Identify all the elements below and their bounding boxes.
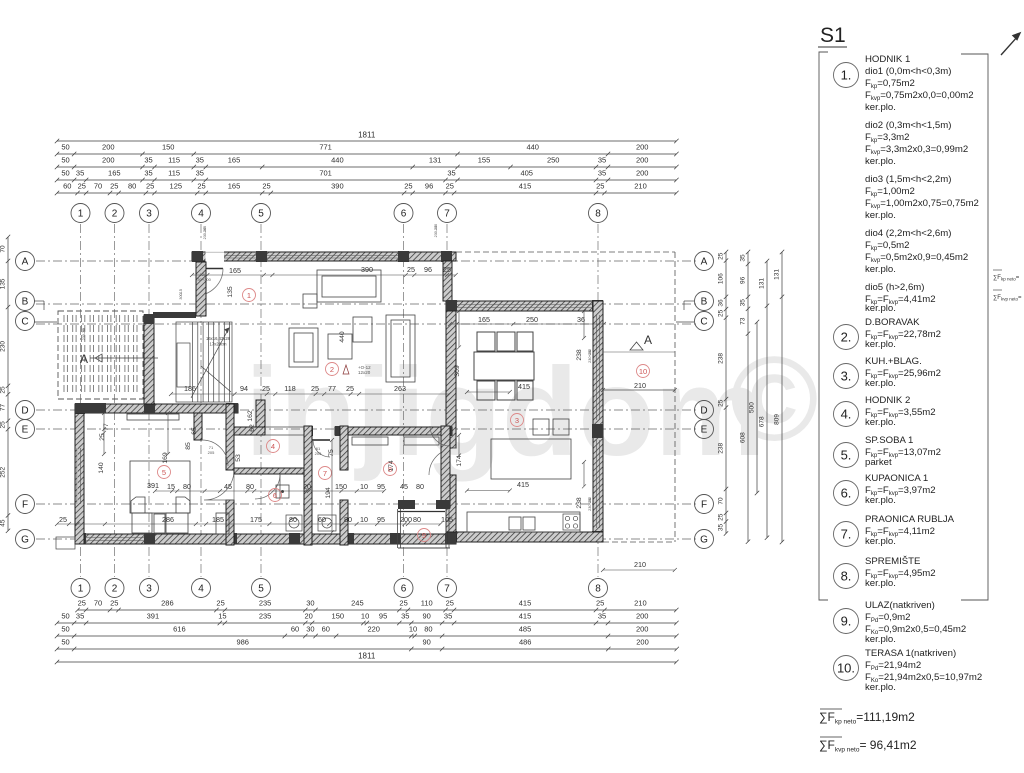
svg-text:80: 80 [416,482,424,491]
svg-text:200: 200 [102,143,115,152]
svg-text:80: 80 [344,515,352,524]
dimension column right 2 [746,250,750,544]
grid circle 8 bottom [589,579,608,598]
svg-text:25: 25 [718,252,725,260]
terrace 10 dim lines [603,352,675,390]
svg-text:80: 80 [424,625,432,634]
svg-text:238: 238 [576,497,583,509]
grid line 7 [446,224,448,577]
pillar bottom G7 [445,533,456,544]
svg-text:250: 250 [547,156,560,165]
window top wall line 1 [207,255,398,257]
svg-text:2: 2 [330,365,334,374]
svg-text:SP.SOBA 1: SP.SOBA 1 [865,435,913,446]
interior dim 238 upper [582,309,586,340]
svg-text:230-20: 230-20 [203,228,207,240]
interior dim kitchen top [448,322,606,326]
svg-text:25: 25 [78,599,86,608]
svg-text:809: 809 [774,414,781,425]
svg-text:35: 35 [447,169,455,178]
svg-text:200: 200 [636,143,649,152]
svg-text:KUH.+BLAG.: KUH.+BLAG. [865,356,922,367]
in-plan rotated dimension numbers [98,286,583,509]
dresser [216,513,229,534]
svg-text:1: 1 [78,584,84,595]
svg-text:210: 210 [634,560,646,569]
svg-text:210: 210 [634,182,647,191]
legend entry 6. text [865,473,936,506]
grid circle G right [695,530,714,549]
svg-text:36: 36 [718,299,725,307]
tv cabinet [386,315,415,382]
wall bedroom east upper [226,404,234,470]
wall top exterior [192,252,456,261]
legend title S1 [818,24,847,47]
grid line 2 [114,224,116,577]
svg-text:35: 35 [144,156,152,165]
svg-text:165: 165 [229,266,241,275]
svg-text:Fkvp=0,75m2x0,0=0,00m2: Fkvp=0,75m2x0,0=0,00m2 [865,90,974,102]
washing machine [318,515,336,531]
svg-text:7: 7 [444,584,450,595]
bed pillow 2 [176,497,190,513]
window bottom 1 [86,537,144,539]
svg-text:35: 35 [598,612,606,621]
grid circle E left [16,420,35,439]
bath sink [276,485,289,498]
svg-text:6: 6 [401,209,407,220]
svg-text:35: 35 [740,299,747,307]
window west sill [77,448,81,504]
grid circle B left [16,292,35,311]
svg-text:10: 10 [361,612,369,621]
svg-text:D.BORAVAK: D.BORAVAK [865,317,920,328]
svg-text:210: 210 [634,599,647,608]
legend entry 6. circle [834,481,859,506]
svg-text:131: 131 [774,269,781,280]
wall room4 north stub [256,400,265,435]
svg-text:25: 25 [262,384,270,393]
dimension row top 4 [55,178,679,182]
svg-text:235: 235 [259,612,272,621]
room number 4 [267,440,280,453]
window west 1 [77,448,79,504]
svg-text:C: C [21,317,28,328]
legend entry 2. circle [834,325,859,350]
svg-text:80: 80 [128,182,136,191]
dimension row bottom 2 [55,621,679,625]
room number 6 [269,489,282,502]
dining table [474,352,534,380]
svg-text:4: 4 [198,584,204,595]
wall bedroom closet [194,413,202,440]
dining chair 1 [477,332,495,351]
svg-text:185: 185 [212,515,224,524]
svg-text:162: 162 [247,410,254,422]
svg-text:Fkvp=0,5m2x0,9=0,45m2: Fkvp=0,5m2x0,9=0,45m2 [865,252,968,264]
grid circle 7 bottom [438,579,457,598]
north arrow [1001,33,1020,55]
porch wall west 2 [400,509,402,548]
dimension column right 4 [780,250,784,544]
door swing bathroom [255,474,280,499]
svg-text:80: 80 [289,515,297,524]
svg-text:165: 165 [228,156,241,165]
svg-text:174: 174 [388,460,395,472]
wall room7 east lower [340,500,348,545]
svg-text:25: 25 [59,515,67,524]
pillar top A5 [256,251,267,262]
interior dim dining 415 [465,390,512,394]
wall kitchen west upper [446,311,456,448]
pillar kitchen NW [446,300,457,311]
svg-text:125: 125 [170,182,183,191]
svg-text:500: 500 [749,402,756,413]
grid circle 6 top [394,204,413,223]
svg-text:Fkvp=3,3m2x0,3=0,99m2: Fkvp=3,3m2x0,3=0,99m2 [865,144,968,156]
svg-text:dio1 (0,0m<h<0,3m): dio1 (0,0m<h<0,3m) [865,66,951,77]
svg-text:ker.plo.: ker.plo. [865,339,896,350]
svg-text:F: F [701,500,707,511]
grid circle C left [16,312,35,331]
dimension column right 3 [765,259,769,540]
bed pillow 1 [131,497,145,513]
svg-text:HODNIK 2: HODNIK 2 [865,395,910,406]
grid line 1 [80,224,82,577]
svg-text:415: 415 [517,480,529,489]
svg-text:286: 286 [161,599,174,608]
svg-text:115: 115 [168,169,180,178]
corridor opening bottom [265,434,304,436]
svg-text:dio3 (1,5m<h<2,2m): dio3 (1,5m<h<2,2m) [865,174,951,185]
room number 5 [158,466,171,479]
wall living east [443,261,452,301]
svg-text:608: 608 [740,432,747,443]
svg-text:73: 73 [740,317,747,325]
svg-text:5: 5 [162,468,166,477]
svg-text:165: 165 [228,182,241,191]
svg-text:391: 391 [147,481,159,490]
cooktop [563,514,580,530]
interior dim corridor [153,489,386,493]
svg-text:10: 10 [639,367,647,376]
svg-text:118: 118 [284,384,295,393]
svg-text:678: 678 [759,416,766,427]
svg-text:50: 50 [61,143,69,152]
svg-text:200: 200 [636,612,649,621]
svg-text:30: 30 [306,599,314,608]
svg-text:95: 95 [379,612,387,621]
svg-text:174: 174 [456,455,463,467]
in-plan dimension numbers [59,265,646,569]
svg-text:25: 25 [407,265,415,274]
svg-text:B: B [22,297,29,308]
interior dim terrace 210b [601,568,677,572]
svg-text:1.: 1. [841,68,852,83]
grid circle F right [695,495,714,514]
porch door lintel [398,511,445,513]
svg-text:50: 50 [61,638,69,647]
svg-text:5: 5 [258,209,264,220]
svg-text:10: 10 [360,482,368,491]
svg-text:25: 25 [262,182,270,191]
label 128 230+300 [195,272,211,282]
svg-text:2.: 2. [841,330,852,345]
section marker A kitchen [630,333,652,350]
svg-text:G: G [21,535,29,546]
door leaf entrance [196,268,223,270]
svg-text:53: 53 [235,454,242,462]
closet room 8 [404,437,439,445]
svg-text:8: 8 [595,209,601,220]
svg-text:440: 440 [339,331,346,343]
svg-text:ker.plo.: ker.plo. [865,495,896,506]
svg-text:85: 85 [185,442,192,450]
svg-text:616: 616 [173,625,186,634]
window kitchen east 1 [596,315,598,420]
legend entry 8. text [865,556,936,589]
svg-text:25: 25 [110,182,118,191]
legend entry 10. circle [834,656,859,681]
svg-text:1: 1 [78,209,84,220]
door opening jamb lines [206,251,225,253]
svg-text:25: 25 [399,599,407,608]
svg-text:25: 25 [110,599,118,608]
svg-text:8: 8 [595,584,601,595]
svg-text:5.: 5. [841,448,852,463]
svg-text:415: 415 [519,612,532,621]
window kitchen east 3 [596,440,598,528]
svg-text:77: 77 [103,423,110,431]
svg-text:25: 25 [718,399,725,407]
grid circle 5 bottom [252,579,271,598]
grid line C [36,323,696,325]
svg-text:115: 115 [168,156,180,165]
svg-text:36: 36 [577,315,585,324]
grid circle E right [695,420,714,439]
pillar bottom G5 [343,533,354,544]
svg-text:230: 230 [0,341,7,352]
dashed canopy right [674,252,676,542]
nightstand 1 [132,513,152,533]
svg-text:150: 150 [162,143,175,152]
svg-text:25: 25 [197,182,205,191]
grid line F [36,503,696,505]
dining chair 6 [517,381,533,400]
pillar bottom G1 [75,533,86,544]
kitchen counter [467,512,580,532]
svg-text:4: 4 [271,442,275,451]
wall kitchen west lower [446,475,456,532]
svg-text:210: 210 [634,381,646,390]
svg-text:D: D [21,406,28,417]
pillar corridor 3 [441,426,452,436]
svg-text:390: 390 [361,265,373,274]
svg-text:25: 25 [311,384,319,393]
dining chair 4 [477,381,495,400]
wall hall north [153,312,196,318]
wall west exterior [75,404,84,544]
svg-text:50: 50 [61,625,69,634]
svg-text:ker.plo.: ker.plo. [865,303,896,314]
dimension row top 2 [55,152,679,156]
legend entry 3. text [865,356,941,389]
dashed canopy bottom [603,541,675,543]
room number 3 [511,414,524,427]
svg-text:96: 96 [740,276,747,284]
wall hall west [144,315,154,404]
svg-text:35: 35 [144,169,152,178]
grid circle 2 top [105,204,124,223]
svg-text:ker.plo.: ker.plo. [865,682,896,693]
svg-text:20: 20 [305,612,313,621]
svg-text:E: E [701,425,708,436]
porch wall east 2 [448,509,450,548]
wall bottom exterior [75,534,456,544]
svg-text:200: 200 [400,515,412,524]
grid circle 3 bottom [140,579,159,598]
svg-text:7: 7 [444,209,450,220]
svg-text:25: 25 [596,182,604,191]
svg-text:95: 95 [377,515,385,524]
watermark [245,332,818,482]
sigma note right edge 1 [993,270,1020,282]
svg-text:dio4 (2,2m<h<2,6m): dio4 (2,2m<h<2,6m) [865,228,951,239]
svg-text:30: 30 [306,625,314,634]
svg-text:4.: 4. [841,407,852,422]
door leaf bathroom [279,474,281,499]
window kitchen east 2 [599,315,601,420]
svg-text:390: 390 [331,182,344,191]
svg-text:300: 300 [179,293,183,299]
door opening top wall [206,251,225,262]
svg-text:1811: 1811 [358,131,376,140]
svg-text:75: 75 [328,449,335,457]
dining chair 2 [497,332,515,351]
svg-text:1811: 1811 [358,652,376,661]
door header room 7 [311,439,330,441]
wall kitchen north [446,301,603,311]
svg-text:70: 70 [718,497,725,505]
svg-text:50: 50 [61,612,69,621]
coffee table 2 [353,317,372,342]
label 61 205 [315,446,322,456]
svg-text:©: © [730,332,818,466]
legend entry 5. text [865,435,941,468]
svg-text:50: 50 [61,169,69,178]
svg-text:131: 131 [759,278,766,289]
grid circle 2 bottom [105,579,124,598]
svg-text:25: 25 [78,182,86,191]
armchair [289,328,318,367]
svg-text:96: 96 [425,182,433,191]
svg-text:A: A [22,257,29,268]
svg-text:70: 70 [94,182,102,191]
svg-text:dio5 (h>2,6m): dio5 (h>2,6m) [865,282,924,293]
svg-text:200: 200 [636,169,649,178]
bar stool 1 [533,419,549,435]
svg-text:16x16,43x28: 16x16,43x28 [206,336,231,341]
svg-text:7.: 7. [841,527,852,542]
pillar porch east [436,500,450,509]
svg-text:25: 25 [443,265,451,274]
grid line G [36,538,696,540]
interior dim bedroom 169 [166,411,170,456]
connector B right 2 [683,301,685,310]
svg-text:25: 25 [718,513,725,521]
wall corridor 1 [234,427,265,435]
svg-text:9: 9 [422,531,426,540]
wall room8 east [441,426,450,508]
grid line E [36,428,696,430]
svg-text:15: 15 [218,612,226,621]
kitchen island [491,439,571,479]
svg-text:60: 60 [291,625,299,634]
dimension column far left [6,235,10,533]
stairs [176,322,232,402]
interior dim below top wall [190,273,458,277]
svg-text:HODNIK 1: HODNIK 1 [865,54,910,65]
legend sum line 1 [819,709,915,726]
svg-text:25: 25 [446,182,454,191]
svg-text:200: 200 [636,638,649,647]
svg-text:Fkvp=1,00m2x0,75=0,75m2: Fkvp=1,00m2x0,75=0,75m2 [865,198,979,210]
pillar bottom G2 [144,533,155,544]
svg-text:15: 15 [167,482,175,491]
svg-text:25: 25 [596,599,604,608]
room number 7 [319,467,332,480]
grid circle 1 top [71,204,90,223]
svg-text:150: 150 [335,482,347,491]
svg-text:C: C [700,317,707,328]
svg-text:60: 60 [318,515,326,524]
svg-text:3.: 3. [841,369,852,384]
svg-text:5: 5 [258,584,264,595]
svg-text:G: G [700,535,708,546]
svg-text:F: F [22,500,28,511]
pillar kitchen SE [592,531,603,542]
dimension row top 5 [55,191,679,195]
svg-text:3: 3 [515,416,519,425]
svg-text:2: 2 [112,584,118,595]
svg-text:70: 70 [0,245,7,253]
dimension row bottom 4 [55,647,679,651]
sigma note right edge 2 [993,290,1022,302]
svg-text:230+20: 230+20 [588,498,592,511]
pillar porch west [398,500,415,509]
section marker A left [80,352,158,366]
svg-text:70: 70 [94,599,102,608]
svg-text:45: 45 [0,519,7,527]
room number 10 [637,365,650,378]
grid line B [36,303,696,305]
coffee table 1 [328,334,352,359]
svg-text:415: 415 [519,599,532,608]
svg-text:77: 77 [328,384,336,393]
grid line D [36,409,696,411]
dimension row top total 1811 [55,139,679,143]
svg-text:B: B [701,297,708,308]
legend sum line 2 [819,737,917,754]
kitchen sink right [523,517,535,530]
pillar top A4 [192,251,203,262]
interior dim kitchen 174 [457,433,461,458]
legend entry 8. circle [834,564,859,589]
svg-text:ker.plo.: ker.plo. [865,578,896,589]
door swing room 7 [313,440,330,457]
interior dim room7 194 [330,438,334,534]
svg-text:35: 35 [196,156,204,165]
